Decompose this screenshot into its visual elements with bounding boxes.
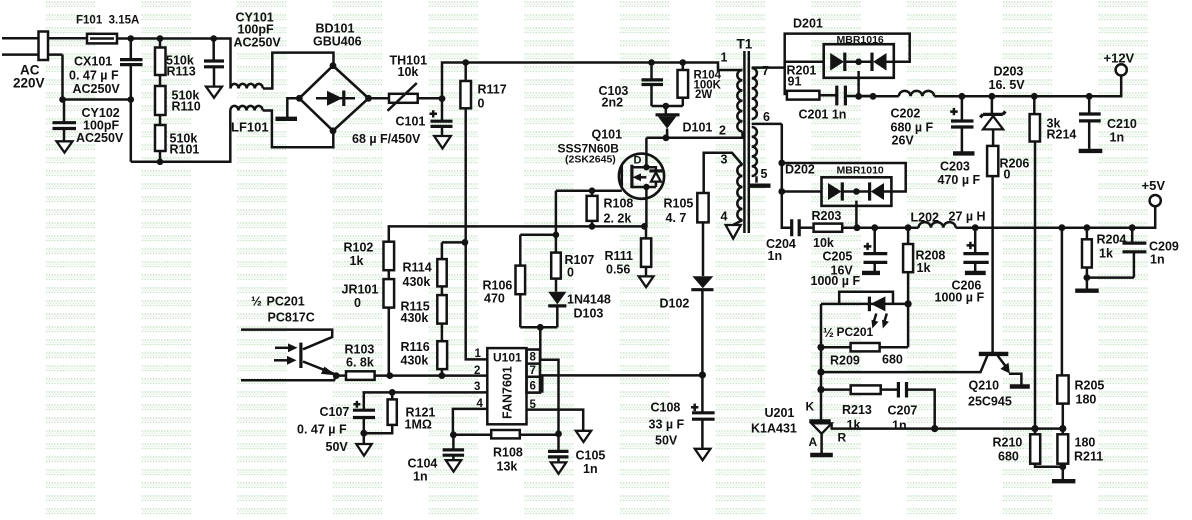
resistor R210 <box>1034 429 1037 435</box>
svg-text:C205: C205 <box>823 250 853 264</box>
svg-text:470 µ F: 470 µ F <box>938 173 981 187</box>
terminal +12V <box>1116 64 1127 75</box>
svg-text:C107: C107 <box>320 405 350 419</box>
bridge rectifier BD101 <box>299 66 368 131</box>
node JR101 bottom <box>386 372 393 379</box>
svg-text:50V: 50V <box>655 434 678 448</box>
wire neutral bottom bus <box>131 111 231 162</box>
resistor R203 <box>814 224 843 232</box>
wire D202 wrap loop <box>782 163 906 192</box>
svg-text:10k: 10k <box>813 236 834 250</box>
svg-text:(2SK2645): (2SK2645) <box>565 154 616 166</box>
shunt regulator U201 K1A431 <box>809 419 830 422</box>
svg-text:R117: R117 <box>478 83 507 97</box>
svg-text:BD101: BD101 <box>316 22 355 36</box>
node base line <box>817 369 824 376</box>
diode D101 <box>665 106 668 114</box>
svg-text:F101 3.15A: F101 3.15A <box>76 15 139 27</box>
ground C205 bar <box>862 271 880 275</box>
polarity C107 plus <box>353 401 360 408</box>
svg-text:C101: C101 <box>396 115 426 129</box>
node bridge top <box>330 62 337 69</box>
svg-text:1000 µ F: 1000 µ F <box>935 291 985 305</box>
node neutral/CX101 <box>128 96 135 103</box>
LED PC201 <box>868 297 871 312</box>
svg-text:AC250V: AC250V <box>76 131 124 145</box>
svg-text:D203: D203 <box>994 65 1024 79</box>
wire pin4 <box>453 409 487 435</box>
resistor R214 <box>1033 96 1036 114</box>
svg-text:Q210: Q210 <box>969 379 1000 393</box>
svg-text:R111: R111 <box>605 249 634 263</box>
node R214/R210 <box>1031 425 1038 432</box>
svg-text:C202: C202 <box>891 107 921 121</box>
svg-text:91: 91 <box>788 75 802 89</box>
inductor +12 rail <box>899 91 934 96</box>
svg-text:L202: L202 <box>911 211 940 225</box>
wire pin7 vcc line <box>540 374 702 377</box>
wire gate line <box>556 189 622 192</box>
wire D202 left pin <box>782 190 822 193</box>
resistor R109 (13k) <box>453 434 491 437</box>
svg-text:+5V: +5V <box>1142 178 1166 193</box>
wire source line <box>388 225 645 228</box>
wire pin6 drop <box>782 124 792 228</box>
svg-text:1k: 1k <box>917 261 931 275</box>
node R213 left <box>817 386 824 393</box>
svg-text:430k: 430k <box>401 311 429 325</box>
node C105 <box>555 431 562 438</box>
svg-text:1: 1 <box>721 51 728 65</box>
wire pin3 to R105 <box>704 153 743 193</box>
capacitor C202 <box>961 96 964 120</box>
svg-text:7: 7 <box>530 365 536 377</box>
resistor R206 <box>987 146 998 176</box>
svg-text:27 µ H: 27 µ H <box>949 210 986 224</box>
svg-text:½: ½ <box>251 294 262 309</box>
node pin8 branch <box>537 324 544 331</box>
svg-text:C209: C209 <box>1149 240 1179 254</box>
node C207/REF <box>931 425 938 432</box>
ground U101 pin5 <box>576 431 591 442</box>
resistor JR101 <box>384 279 395 308</box>
node emitter <box>333 372 340 379</box>
svg-text:R105: R105 <box>664 197 694 211</box>
node live/R113 <box>157 35 164 42</box>
svg-text:1n: 1n <box>1110 131 1125 145</box>
svg-text:Q101: Q101 <box>592 128 623 142</box>
svg-text:K: K <box>806 400 815 414</box>
svg-text:R106: R106 <box>483 279 513 293</box>
inductor LF101 winding A <box>231 84 263 89</box>
wire pin4 to ground <box>733 220 742 225</box>
svg-text:R114: R114 <box>403 261 432 275</box>
wire R107 branch vertical <box>555 191 558 253</box>
capacitor CY102 <box>63 100 66 122</box>
wire pin2 line <box>375 374 488 377</box>
svg-text:1n: 1n <box>1150 253 1165 267</box>
resistor R117 <box>464 63 467 82</box>
ground T1 pin5 bar <box>749 183 771 187</box>
node neutral/CY102 <box>59 96 66 103</box>
wire live rail to LF101 <box>117 39 231 89</box>
node R208 <box>905 224 912 231</box>
node D202 left <box>778 188 785 195</box>
svg-text:R203: R203 <box>812 209 842 223</box>
svg-text:25C945: 25C945 <box>968 395 1012 409</box>
capacitor C205 <box>873 228 876 253</box>
svg-text:1n: 1n <box>583 462 598 476</box>
svg-text:R113: R113 <box>167 65 196 79</box>
T1 secondary winding pin6-pin5 <box>752 127 757 176</box>
svg-text:PC201: PC201 <box>837 325 874 339</box>
svg-text:180: 180 <box>1075 436 1096 450</box>
IC U101 FAN7601 <box>487 348 526 424</box>
svg-text:GBU406: GBU406 <box>313 35 362 49</box>
svg-text:3: 3 <box>474 381 480 393</box>
optocoupler PC201 LED package loop <box>839 292 893 304</box>
resistor R213 <box>821 388 851 391</box>
optocoupler PC201 phototransistor <box>241 330 332 350</box>
transformer T1 core <box>744 51 748 233</box>
svg-text:6. 8k: 6. 8k <box>346 356 374 370</box>
capacitor C206 <box>974 228 977 253</box>
ground R204 bar <box>1075 289 1099 293</box>
wire emitter stub <box>241 376 336 381</box>
svg-text:R108: R108 <box>604 197 634 211</box>
T1 aux winding pin3-pin4 <box>737 165 742 220</box>
arrows PC201 input <box>275 347 291 350</box>
resistor R103 <box>336 374 346 377</box>
svg-text:D202: D202 <box>785 163 815 177</box>
node C206 <box>972 224 979 231</box>
capacitor C104 <box>452 435 455 449</box>
wire pin3 line <box>364 392 488 409</box>
svg-text:5: 5 <box>761 167 768 181</box>
svg-text:K1A431: K1A431 <box>751 422 797 436</box>
node R204/C209 link <box>1084 274 1091 281</box>
wire R114 top link <box>442 242 466 259</box>
capacitor C107 <box>353 410 375 417</box>
svg-text:0: 0 <box>1004 168 1011 182</box>
node R108 top <box>589 187 596 194</box>
svg-text:D: D <box>634 155 642 167</box>
svg-text:R110: R110 <box>172 100 201 114</box>
svg-text:4: 4 <box>721 210 728 224</box>
capacitor C108 <box>701 375 704 412</box>
wire pin8 to C105 node <box>540 327 558 434</box>
svg-text:1k: 1k <box>350 254 364 268</box>
svg-text:68 µ F/450V: 68 µ F/450V <box>352 132 421 146</box>
svg-text:D103: D103 <box>574 307 604 321</box>
svg-text:1MΩ: 1MΩ <box>405 418 432 432</box>
node D101 top <box>663 103 670 110</box>
T1 primary winding pin1-pin2 <box>737 70 742 132</box>
ground Q210 emitter bar <box>1010 384 1030 388</box>
svg-text:2n2: 2n2 <box>602 96 624 110</box>
svg-text:D102: D102 <box>660 297 690 311</box>
wire pin5 to ground <box>527 410 584 431</box>
zener D203 <box>991 96 994 113</box>
ground C206 bar <box>965 271 986 275</box>
resistor R113 <box>159 39 162 48</box>
wire D202 cathode down <box>855 201 858 228</box>
svg-text:R210: R210 <box>993 436 1023 450</box>
svg-text:R116: R116 <box>401 340 430 354</box>
svg-text:33 µ F: 33 µ F <box>649 418 685 432</box>
ground U201 anode bar <box>810 453 833 457</box>
svg-text:0. 47 µ F: 0. 47 µ F <box>297 423 347 437</box>
svg-text:C201 1n: C201 1n <box>799 108 847 122</box>
resistor R115 <box>437 295 446 324</box>
fuse F101 <box>87 34 117 44</box>
svg-text:0: 0 <box>478 97 485 111</box>
svg-text:1: 1 <box>475 348 482 360</box>
svg-text:680: 680 <box>882 353 903 367</box>
svg-text:2: 2 <box>474 365 480 377</box>
svg-text:1k: 1k <box>1099 247 1113 261</box>
capacitor C207 <box>898 382 906 398</box>
svg-text:0: 0 <box>567 266 574 280</box>
node drain/D101 <box>663 134 670 141</box>
svg-text:R214: R214 <box>1047 128 1077 142</box>
node R209 left <box>817 344 824 351</box>
ground C105 <box>551 462 566 473</box>
capacitor C103 <box>650 63 653 79</box>
diode D102 <box>692 276 713 288</box>
wire pin7 <box>752 66 785 69</box>
resistor R211 <box>1062 429 1065 435</box>
node vcc/D102/C108 <box>699 371 706 378</box>
wire bridge negative tail <box>287 98 299 119</box>
wire REF line <box>831 424 1063 429</box>
polarity C205 plus <box>864 243 872 250</box>
svg-text:680 µ F: 680 µ F <box>891 121 934 135</box>
svg-text:T1: T1 <box>737 37 753 52</box>
wire LF101 A to bridge AC1 <box>263 53 334 89</box>
ground divider bar <box>1052 479 1075 483</box>
ground T1 pin4 <box>726 225 741 239</box>
resistor R108 <box>591 191 594 196</box>
wire HV rail to T1 pin1 <box>442 63 743 99</box>
svg-text:4. 7: 4. 7 <box>666 211 687 225</box>
node R214 top <box>1031 93 1038 100</box>
svg-text:R209: R209 <box>830 354 860 368</box>
svg-text:A: A <box>809 435 818 449</box>
wire clamp node <box>652 105 683 108</box>
node C209 <box>1129 224 1136 231</box>
polarity C108 plus <box>691 404 698 411</box>
node R101 bottom <box>157 159 164 166</box>
svg-text:C210: C210 <box>1107 117 1137 131</box>
resistor R102 <box>388 226 391 241</box>
svg-text:1n: 1n <box>768 249 783 263</box>
capacitor C201 <box>837 86 846 106</box>
svg-text:R205: R205 <box>1075 379 1105 393</box>
svg-text:½: ½ <box>823 325 834 340</box>
capacitor C210 <box>1088 96 1091 113</box>
svg-text:2. 2k: 2. 2k <box>604 212 632 226</box>
wire pin5 to ground <box>755 176 758 182</box>
wire neutral drop <box>63 55 131 100</box>
wire D103/R106 junction <box>520 326 557 329</box>
svg-text:1n: 1n <box>892 419 907 433</box>
wire drain to T1 pin2 <box>646 132 742 138</box>
svg-text:R103: R103 <box>345 343 375 357</box>
svg-text:R101: R101 <box>170 143 200 157</box>
polarity C202 plus <box>950 108 958 115</box>
wire +12V rail <box>859 95 899 98</box>
node C210 <box>1086 93 1093 100</box>
resistor R201 <box>783 62 786 95</box>
node divider bottom <box>1059 463 1066 470</box>
svg-text:470: 470 <box>484 292 505 306</box>
thermistor TH101 <box>369 97 390 100</box>
wire pin6 <box>752 123 782 126</box>
svg-text:6: 6 <box>530 381 536 393</box>
wire AC neutral input <box>2 53 63 56</box>
wire +12V rail right <box>934 75 1121 96</box>
node R108 bottom <box>589 223 596 230</box>
wire R106 top link <box>520 235 556 266</box>
svg-text:0: 0 <box>354 296 361 310</box>
diode D103 1N4148 <box>548 292 566 305</box>
node R205/R211 <box>1059 425 1066 432</box>
svg-text:430k: 430k <box>401 354 429 368</box>
resistor R209 <box>821 346 851 349</box>
resistor R101 <box>155 125 166 151</box>
node live/CX101 <box>128 35 135 42</box>
ground C202 bar <box>953 151 975 155</box>
svg-text:16. 5V: 16. 5V <box>989 78 1026 92</box>
wire opto left drop <box>820 304 823 420</box>
svg-text:AC250V: AC250V <box>73 82 121 96</box>
node R208/LED <box>905 300 912 307</box>
ground C101 <box>434 136 451 148</box>
node bridge bottom <box>330 127 337 134</box>
ground CY101 <box>206 87 222 98</box>
node bridge right <box>365 95 372 102</box>
wire LED anode line <box>821 303 908 306</box>
svg-text:C105: C105 <box>576 449 606 463</box>
svg-text:1n: 1n <box>413 470 428 484</box>
polarity C206 plus <box>967 242 975 249</box>
resistor R105 <box>697 193 708 222</box>
svg-text:C104: C104 <box>408 457 438 471</box>
capacitor C101 <box>441 99 444 121</box>
svg-text:U201: U201 <box>765 406 795 420</box>
wire pin6 link <box>540 375 542 391</box>
transistor Q210 <box>979 352 1009 356</box>
inductor L202 <box>919 222 956 228</box>
svg-text:7: 7 <box>762 64 769 78</box>
node D203 <box>989 93 996 100</box>
svg-text:50V: 50V <box>326 440 349 454</box>
wire +5V rail <box>956 206 1155 228</box>
AC plug connector <box>39 32 49 61</box>
svg-text:R213: R213 <box>842 403 872 417</box>
ground C107 <box>363 433 366 444</box>
node C107 bottom <box>360 430 367 437</box>
node C202 <box>959 93 966 100</box>
wire D201 cathode down <box>857 71 860 96</box>
resistor R121 <box>391 392 394 399</box>
svg-text:D101: D101 <box>683 121 713 135</box>
capacitor CX101 <box>130 39 133 59</box>
svg-text:26V: 26V <box>892 134 915 148</box>
svg-text:2: 2 <box>719 124 726 138</box>
resistor R204 <box>1086 228 1089 240</box>
node pin4/C104 <box>450 431 457 438</box>
svg-text:C108: C108 <box>651 401 681 415</box>
node R117 top <box>462 59 469 66</box>
ground CY102 <box>57 141 73 152</box>
resistor R205 <box>1061 228 1064 376</box>
svg-text:D201: D201 <box>793 17 823 31</box>
U101 pin cells <box>527 350 541 393</box>
polarity C101 plus <box>430 110 438 117</box>
svg-text:AC250V: AC250V <box>234 36 282 50</box>
svg-text:R108: R108 <box>493 446 523 460</box>
node C101 <box>439 95 446 102</box>
svg-text:13k: 13k <box>497 460 518 474</box>
svg-text:PC201: PC201 <box>267 295 305 309</box>
svg-text:JR101: JR101 <box>342 283 379 297</box>
svg-text:1000 µ F: 1000 µ F <box>811 274 861 288</box>
ground bridge bar <box>276 117 298 121</box>
node snubber/rail <box>870 93 877 100</box>
svg-text:+12V: +12V <box>1104 51 1135 66</box>
wire Q210 base line <box>821 356 987 372</box>
wire C107/R121 bottom <box>364 425 392 433</box>
resistor R111 <box>645 226 648 238</box>
ground C108 <box>695 449 711 460</box>
node live/CY101 <box>210 35 217 42</box>
node source / R111 <box>641 223 648 230</box>
svg-text:R: R <box>838 431 847 445</box>
svg-text:430k: 430k <box>403 275 431 289</box>
capacitor C105 <box>557 434 560 450</box>
svg-text:0. 47 µ F: 0. 47 µ F <box>69 69 119 83</box>
svg-text:0.56: 0.56 <box>606 263 630 277</box>
svg-text:LF101: LF101 <box>231 120 269 135</box>
node R204 top <box>1084 224 1091 231</box>
MOSFET Q101 <box>619 154 664 199</box>
svg-text:PC817C: PC817C <box>268 311 315 325</box>
resistor R116 <box>437 341 447 369</box>
svg-text:R102: R102 <box>344 241 374 255</box>
node R104 top <box>680 59 687 66</box>
svg-text:R204: R204 <box>1097 233 1127 247</box>
svg-text:FAN7601: FAN7601 <box>501 366 515 419</box>
node R205 top <box>1059 224 1066 231</box>
dual diode D202 MBR1010 box <box>822 177 892 206</box>
svg-text:1k: 1k <box>847 418 861 432</box>
node +12 rail left <box>855 93 862 100</box>
wire pin7 loop to D201 <box>785 34 910 68</box>
resistor R208 <box>907 228 910 244</box>
node rail/D202 <box>854 224 861 231</box>
resistor R110 <box>155 86 166 115</box>
svg-text:1N4148: 1N4148 <box>567 293 611 307</box>
arrows PC201 LED <box>874 314 877 323</box>
node R116 bottom <box>439 372 446 379</box>
ground C210 bar <box>1079 149 1103 153</box>
dual diode D201 MBR1016 box <box>824 44 894 78</box>
svg-text:8: 8 <box>530 352 537 364</box>
svg-text:2W: 2W <box>695 89 712 101</box>
svg-text:6: 6 <box>763 110 770 124</box>
